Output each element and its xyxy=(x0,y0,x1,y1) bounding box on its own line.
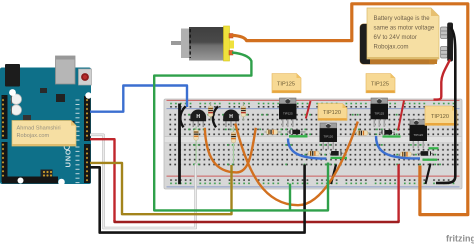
transistor Q2 (TO-92) xyxy=(223,109,239,127)
9V battery BT1 xyxy=(360,23,453,65)
wire black battery to rail xyxy=(436,27,455,183)
small IC xyxy=(56,94,65,102)
voltage regulator xyxy=(23,115,31,121)
wire orange arc A xyxy=(205,128,256,173)
small part xyxy=(40,88,47,93)
wire blue Arduino to rail xyxy=(90,86,187,112)
label TIP125 (U1) xyxy=(272,74,301,93)
svg-text:same as motor voltage: same as motor voltage xyxy=(374,25,435,31)
resistor R2 xyxy=(241,102,246,121)
svg-text:6V to 24V motor: 6V to 24V motor xyxy=(374,35,417,41)
wire green jumper J5 xyxy=(429,147,439,149)
label TIP125 (U3) xyxy=(366,74,395,93)
transistor U4 TIP120 (TO-220) xyxy=(410,120,428,149)
resistor R4 xyxy=(231,127,236,164)
svg-text:TIP125: TIP125 xyxy=(374,112,384,116)
svg-text:Robojax.com: Robojax.com xyxy=(17,133,50,139)
svg-text:TIP120: TIP120 xyxy=(323,110,341,116)
diode D2 xyxy=(379,130,395,135)
wire blue arc 1 xyxy=(288,139,327,159)
right header strip 2 xyxy=(84,144,91,183)
label TIP120 (U4) xyxy=(425,106,457,126)
wire black jumper S1 xyxy=(331,165,336,185)
svg-text:TIP125: TIP125 xyxy=(371,82,389,88)
wire green stub to rail xyxy=(289,184,291,210)
Arduino Uno board xyxy=(0,56,92,185)
resistor R6 xyxy=(355,131,371,136)
svg-text:TIP125: TIP125 xyxy=(277,82,295,88)
transistor U3 TIP125 (TO-220) xyxy=(371,98,389,127)
ICSP header 2 xyxy=(41,170,53,179)
svg-text:TIP120: TIP120 xyxy=(431,114,449,120)
right header strip 1 xyxy=(84,96,91,141)
resistor R3 xyxy=(194,127,199,164)
svg-text:Battery voltage is the: Battery voltage is the xyxy=(374,16,431,22)
svg-text:TIP120: TIP120 xyxy=(413,133,423,137)
reset button xyxy=(79,69,92,85)
wire black Arduino to breadboard xyxy=(90,165,305,233)
bottom header strip xyxy=(2,177,58,184)
ICSP header xyxy=(62,121,75,131)
breadboard xyxy=(164,99,462,189)
svg-text:UNO: UNO xyxy=(64,148,73,167)
wire olive Arduino to breadboard xyxy=(90,163,232,214)
wire green jumper J1 xyxy=(289,135,308,137)
wire white Arduino to breadboard xyxy=(90,135,196,228)
wire red jumper Rs1 xyxy=(306,101,311,119)
transistor U2 TIP120 (TO-220) xyxy=(320,123,338,150)
svg-text:H: H xyxy=(196,114,200,120)
diode D3 xyxy=(330,151,344,156)
wire black curved (rail to Q2) xyxy=(213,106,218,127)
transistor Q1 (TO-92) xyxy=(190,109,206,127)
wire red jumper Rs2 xyxy=(398,101,404,131)
wire red Arduino to breadboard xyxy=(115,220,399,222)
green connected holes xyxy=(188,114,441,165)
note sticky (battery) xyxy=(367,8,439,59)
resistor R7 xyxy=(307,151,323,156)
capacitor C1 xyxy=(11,94,21,104)
wire blue arc 2 xyxy=(376,136,420,158)
wire green motor to breadboard xyxy=(154,53,328,211)
svg-text:TIP125: TIP125 xyxy=(283,112,293,116)
wire black jumper S2 xyxy=(426,164,431,185)
svg-text:Robojax.com: Robojax.com xyxy=(374,44,409,50)
transistor U1 TIP125 (TO-220) xyxy=(279,98,297,127)
power jack xyxy=(5,64,20,87)
svg-text:TIP120: TIP120 xyxy=(323,135,333,139)
wire red battery to rail xyxy=(434,60,451,100)
wire red Arduino segment xyxy=(90,139,115,221)
mounting hole xyxy=(9,89,16,96)
wire green jumper J4 xyxy=(423,159,438,161)
wire black rail jumper (long vertical on breadboard) xyxy=(178,104,181,185)
wire green jumper J3 xyxy=(331,157,348,159)
resistor R8 xyxy=(399,152,414,157)
label TIP120 (U2) xyxy=(318,104,347,121)
wire green jumper J2 xyxy=(383,135,401,137)
wire orange motor-battery loop xyxy=(232,4,468,215)
diode D4 xyxy=(418,151,434,156)
capacitor C2 xyxy=(11,105,21,115)
resistor R5 xyxy=(265,130,282,135)
svg-text:H: H xyxy=(229,114,233,120)
wire orange arc B xyxy=(235,122,357,206)
left header strip 1 xyxy=(2,95,8,139)
resistor R1 xyxy=(208,102,213,121)
wire black curved (rail to Q1) xyxy=(180,106,185,127)
diode D1 xyxy=(287,130,306,135)
USB connector xyxy=(56,56,76,84)
left header strip 2 xyxy=(2,142,8,182)
svg-text:fritzing: fritzing xyxy=(446,234,474,244)
DC motor M1 xyxy=(171,26,234,61)
svg-text:Ahmad Shamshiri: Ahmad Shamshiri xyxy=(17,126,61,132)
note sticky (Arduino) xyxy=(12,121,76,147)
